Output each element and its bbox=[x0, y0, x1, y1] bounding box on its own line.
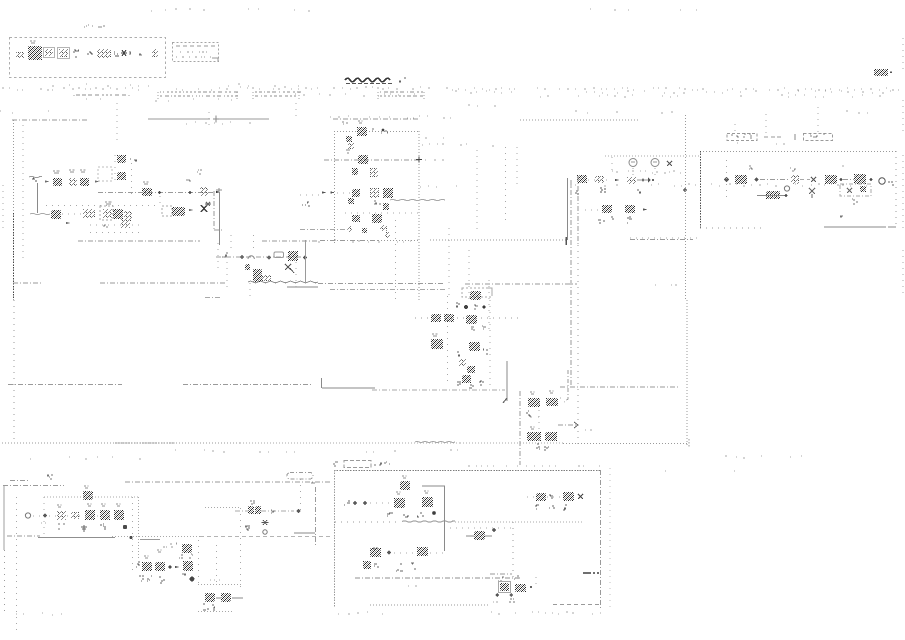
section rail y385 seg1 bbox=[8, 384, 122, 386]
deflection box label bbox=[374, 462, 390, 465]
resistor R303 bbox=[625, 205, 635, 213]
bus wire top bbox=[148, 118, 210, 120]
IF box left edge bbox=[334, 131, 336, 245]
rail y283 seg3 bbox=[318, 283, 445, 285]
section rail y387 seg4 bbox=[560, 386, 678, 388]
defl below dots bbox=[338, 612, 383, 614]
vert wire dots2 bbox=[430, 552, 445, 554]
Q602 marks bbox=[457, 352, 460, 356]
resistor R104 bbox=[51, 210, 61, 219]
IF box top left bbox=[334, 131, 356, 133]
sync sep R701 bbox=[528, 398, 540, 407]
pin name text block D bbox=[76, 94, 126, 96]
R101 designator bbox=[53, 171, 60, 173]
C203 designator bbox=[346, 150, 350, 153]
legend title text bbox=[84, 25, 105, 27]
sync sep R702 bbox=[546, 398, 558, 406]
vout stub bbox=[535, 577, 537, 589]
transistor Q401 bbox=[809, 188, 815, 198]
input diamond bbox=[683, 188, 688, 193]
chroma dashdot x520 bbox=[519, 391, 521, 465]
connector link bbox=[764, 136, 781, 138]
note text line 3 bbox=[176, 56, 211, 58]
bias dots bbox=[0, 0, 1, 1]
inner left border bbox=[22, 125, 24, 262]
dotted rail y232 bbox=[90, 232, 140, 234]
cascade vert x447 bbox=[447, 296, 449, 382]
arrow A7 bbox=[615, 179, 619, 181]
sync marks bbox=[526, 411, 531, 416]
left margin marks bbox=[2, 185, 4, 228]
note box bbox=[173, 43, 219, 62]
video rail y318 bbox=[415, 317, 520, 319]
arrow A2 bbox=[95, 180, 99, 182]
stub x726 bbox=[726, 160, 728, 200]
capacitor C205 bbox=[347, 226, 352, 232]
capacitor C102 bbox=[117, 155, 126, 163]
main block left border dense bbox=[13, 213, 15, 300]
Q801 designator bbox=[84, 486, 89, 488]
vosc label bbox=[373, 548, 378, 549]
h rail sparse bbox=[335, 521, 400, 523]
output jack bbox=[879, 178, 885, 184]
R301 marks bbox=[575, 191, 579, 194]
junction J6 bbox=[870, 178, 873, 181]
diamond dots bbox=[41, 522, 46, 524]
right area bottom dotted bbox=[563, 443, 688, 445]
R401 wire bbox=[757, 195, 786, 197]
IC buffer Q201 bbox=[383, 188, 393, 198]
audio inner box right bbox=[138, 497, 140, 560]
main block left border lower bbox=[13, 300, 15, 443]
main block left border bbox=[13, 120, 15, 213]
annotation row y92 right bbox=[455, 91, 891, 93]
output block right edge bbox=[895, 151, 897, 228]
Q803 designator bbox=[116, 504, 121, 506]
resistor R205 bbox=[352, 215, 360, 222]
right area vertical x687 bbox=[686, 300, 688, 446]
R102 designator bbox=[80, 170, 86, 172]
audio long rail y482 bbox=[125, 481, 332, 483]
T401 designator bbox=[749, 166, 753, 169]
agc cap C502 bbox=[245, 264, 250, 270]
note text line 1 bbox=[176, 45, 215, 47]
annotation row y88 left bbox=[2, 88, 228, 90]
separator specks y450 bbox=[175, 450, 295, 452]
cap C802 bbox=[183, 561, 193, 571]
capacitor C101 bbox=[69, 178, 77, 186]
cap marks row bbox=[457, 382, 461, 385]
C803 marks bbox=[179, 555, 183, 558]
link star bbox=[262, 520, 269, 525]
junction J8 bbox=[130, 536, 133, 539]
annotation row y88 right bbox=[452, 88, 899, 90]
section stub x321 bbox=[321, 378, 323, 388]
resistor R105 bbox=[113, 209, 123, 219]
rail y241 right bbox=[430, 239, 567, 241]
J2 designator bbox=[186, 180, 191, 181]
resistor R601 bbox=[431, 314, 441, 322]
audio rail stub bbox=[10, 480, 28, 482]
ic951 x bbox=[578, 494, 583, 499]
hdiamond 1 bbox=[353, 501, 358, 506]
agc signal wire y257 bbox=[216, 256, 302, 258]
C101 designator bbox=[69, 170, 75, 172]
agc bottom stub bbox=[205, 297, 222, 299]
vert marks bbox=[363, 561, 371, 569]
audio diamond bbox=[43, 513, 48, 518]
IF upper stub rail y229 bbox=[300, 229, 349, 231]
output vertical wire bbox=[219, 192, 221, 245]
link diamond bbox=[296, 509, 301, 514]
pin name text block A bbox=[160, 92, 238, 96]
out box bottom bbox=[198, 611, 232, 613]
out coil L801 bbox=[221, 593, 231, 602]
rail y283 seg1 bbox=[13, 282, 42, 284]
ground marks bbox=[840, 216, 843, 217]
wire solid y180 bbox=[637, 179, 649, 181]
junction J1 bbox=[158, 191, 161, 194]
ceramic filter CF201 bbox=[322, 191, 326, 193]
arrow A8 bbox=[648, 178, 651, 183]
arrow A1 bbox=[45, 180, 49, 182]
legend symbol S10 dot bbox=[129, 52, 131, 54]
ic950 cluster bbox=[536, 493, 546, 501]
W mark bbox=[58, 524, 65, 529]
link Q mark bbox=[263, 530, 267, 534]
input wavy lead bbox=[29, 176, 42, 178]
cap marks bbox=[100, 524, 106, 529]
capacitor C202 bbox=[348, 143, 354, 149]
crystal Y101 bbox=[103, 209, 112, 218]
CN1 stub bbox=[765, 114, 767, 133]
net label bbox=[197, 170, 202, 174]
det box edge x517 bbox=[516, 147, 518, 185]
bottom dotted y238 bbox=[630, 237, 700, 239]
agc diamond 2 bbox=[267, 255, 271, 259]
defl box left edge bbox=[334, 470, 336, 607]
h rail wavy bbox=[402, 521, 455, 523]
T901 designator bbox=[402, 476, 407, 478]
transistor Q602 bbox=[469, 342, 480, 351]
junction J2 bbox=[189, 191, 192, 194]
bias cap C402 bbox=[860, 186, 866, 192]
ic950 marks bbox=[549, 495, 553, 498]
deflection small box bbox=[344, 461, 371, 468]
wire dots y210 bbox=[585, 209, 600, 211]
legend symbol S3 capacitor bbox=[44, 48, 55, 58]
capacitor C204 bbox=[370, 188, 379, 198]
bus stub x209 bbox=[208, 112, 210, 130]
agc dots col x250 bbox=[249, 283, 251, 300]
resistor R204 bbox=[348, 198, 354, 204]
left block vertical wire bbox=[37, 183, 39, 213]
audio box left dotted bbox=[4, 550, 6, 616]
C304 marks bbox=[627, 217, 632, 223]
VR801 designator bbox=[57, 505, 62, 507]
IF inner vertical bbox=[395, 220, 397, 300]
resistor R602 bbox=[444, 314, 454, 322]
bus wire top right segment bbox=[333, 118, 419, 120]
hdrv Q902 bbox=[422, 497, 433, 507]
legend symbol S6 zener bbox=[87, 52, 93, 54]
agc dots col x227 bbox=[226, 262, 228, 292]
arrow A10 bbox=[175, 566, 179, 568]
IF transformer T202 bbox=[358, 155, 368, 164]
rail y241 left bbox=[78, 240, 200, 242]
audio inner left dotted bbox=[16, 497, 18, 630]
chroma wire x507 bbox=[506, 361, 508, 401]
resistor R202 bbox=[370, 168, 378, 177]
R103 designator bbox=[143, 182, 149, 184]
audio bus solid seg2 bbox=[140, 539, 160, 541]
separator dotted y443 left bbox=[2, 442, 240, 444]
vert osc Q903 bbox=[370, 548, 381, 557]
rail y283 wavy bbox=[248, 281, 318, 283]
resistor R103 bbox=[142, 188, 152, 196]
agc left edge dots bbox=[217, 243, 219, 268]
vert diamond bbox=[387, 550, 392, 555]
out wire 2 bbox=[232, 597, 243, 599]
C802 wavy bbox=[182, 574, 186, 575]
out box top bbox=[198, 584, 242, 586]
flyback box dots bbox=[450, 527, 512, 529]
section rail y385 seg2 bbox=[183, 384, 312, 386]
AGC text cluster bbox=[258, 275, 271, 281]
annotation row y112 bbox=[0, 111, 49, 113]
Q901 designator bbox=[396, 492, 401, 494]
junction J9 bbox=[169, 566, 172, 569]
rail y283 seg2 bbox=[100, 282, 225, 284]
power dash mark bbox=[583, 572, 599, 574]
coupling dashed box bbox=[98, 167, 112, 181]
wire y180 dashdot 2 bbox=[843, 179, 854, 181]
chroma arrow bbox=[503, 398, 507, 403]
vert drv Q904 bbox=[417, 547, 428, 556]
IC401 power amp bbox=[735, 175, 747, 184]
DL marks bottom bbox=[471, 327, 475, 330]
stage2 marks bbox=[139, 576, 144, 581]
vout diamonds bbox=[495, 593, 499, 597]
legend symbol S2 designator bbox=[30, 41, 36, 43]
separator specks y457 bbox=[30, 457, 141, 459]
vout C905 bbox=[499, 582, 511, 593]
transformer T401 bbox=[825, 175, 837, 184]
mute transistor Q801 bbox=[83, 491, 93, 500]
page top noise bbox=[151, 9, 310, 11]
legend symbol S8 arrow bbox=[114, 52, 119, 56]
defl box bottom dashes bbox=[553, 604, 600, 606]
transistor Q601 bbox=[431, 339, 443, 349]
bias marks bbox=[852, 199, 858, 204]
hdrive vertical bbox=[444, 486, 446, 551]
CN1 pins bbox=[731, 134, 752, 138]
link marks bbox=[271, 510, 275, 513]
boot cap C803 bbox=[182, 544, 192, 553]
sheet number label bbox=[874, 69, 888, 76]
Q301 marks bbox=[600, 188, 606, 192]
separator dotted y443 mid bbox=[240, 442, 460, 444]
tuner top dotted bbox=[605, 155, 700, 157]
input terminal X1 bbox=[32, 178, 37, 181]
star mark bbox=[205, 202, 211, 206]
resistor R203 bbox=[352, 189, 360, 197]
sync branch hook bbox=[563, 370, 568, 403]
separator dotted y443 dark seg bbox=[115, 442, 175, 444]
resistor R603 bbox=[459, 359, 466, 366]
audio node vertical bbox=[132, 497, 134, 575]
vhold rail y574 bbox=[490, 573, 512, 575]
spk box right bbox=[240, 508, 242, 590]
arrow A3 bbox=[216, 191, 220, 193]
ic95x wire dots bbox=[527, 496, 535, 498]
bus sub dots y123 bbox=[186, 122, 251, 124]
link cluster bbox=[302, 202, 310, 206]
annotation row y88 mid bbox=[240, 87, 448, 89]
sync marks2 bbox=[536, 444, 540, 449]
capacitor C208 bbox=[385, 232, 390, 238]
agc dots col x296 bbox=[295, 262, 297, 288]
main block top border bbox=[12, 119, 88, 121]
sync sep R703 bbox=[527, 432, 541, 441]
CN1 stub2 bbox=[734, 124, 736, 132]
bus solid y288 bbox=[287, 286, 318, 288]
CN2 pins bbox=[810, 134, 825, 137]
jack marks bbox=[888, 182, 894, 185]
T201 top designator bbox=[342, 122, 348, 124]
separator dotted y466 bbox=[468, 465, 600, 467]
annotation row y100 bbox=[86, 99, 232, 101]
R703 designator bbox=[530, 427, 535, 429]
feedback arrow bbox=[216, 188, 222, 192]
emitter resistor R401 bbox=[766, 191, 780, 199]
rail y284 seg4 bbox=[465, 283, 577, 285]
stage2 input mark bbox=[136, 562, 140, 567]
arrow A5 bbox=[66, 222, 70, 224]
legend symbol S9 star bbox=[121, 50, 127, 56]
IF dotted rail y213 bbox=[345, 212, 420, 214]
Q804 designator bbox=[144, 556, 149, 558]
right area vertical x685 bbox=[685, 115, 687, 300]
right col dots x610 bbox=[609, 468, 611, 608]
transformer T402 bbox=[854, 174, 866, 184]
wire dashes bbox=[800, 179, 810, 181]
vert wire dots bbox=[394, 552, 416, 554]
T201 designator bbox=[358, 121, 363, 123]
IF signal wire y160 bbox=[324, 159, 420, 161]
coil L302 ring bbox=[651, 159, 659, 167]
separator end tick bbox=[688, 439, 690, 447]
L302 x mark bbox=[667, 161, 672, 166]
rail y241 dots bbox=[318, 240, 418, 242]
hwire dots bbox=[370, 502, 393, 504]
sync sep R704 bbox=[545, 432, 557, 441]
output block left edge bbox=[700, 151, 702, 228]
bus junction bbox=[213, 116, 219, 123]
junction J5 bbox=[840, 178, 843, 181]
resistor R101 bbox=[53, 178, 62, 186]
hdrive transformer T901 bbox=[400, 481, 410, 490]
separator specks y457 right bbox=[725, 456, 802, 458]
IF wire dots right bbox=[425, 159, 444, 161]
agc filter C503 bbox=[253, 269, 262, 282]
rail y239 far right bbox=[630, 239, 693, 241]
capacitor C206 bbox=[362, 228, 367, 233]
link vertical dashdot x315 bbox=[315, 487, 317, 546]
CN2 stub bbox=[817, 107, 819, 133]
node wire x131 bbox=[131, 163, 133, 198]
defl box right edge bbox=[600, 470, 602, 608]
branch stub bbox=[159, 196, 161, 208]
IF box top right bbox=[369, 131, 419, 133]
agc diamond 1 bbox=[240, 255, 244, 259]
audio box left solid bbox=[3, 486, 5, 550]
deflection left tick bbox=[333, 462, 338, 466]
Q902 designator bbox=[424, 491, 429, 493]
flyback diamond bbox=[492, 528, 496, 532]
link tick bbox=[311, 482, 315, 484]
R701 designator bbox=[530, 392, 535, 394]
T201 side marks bbox=[372, 129, 388, 133]
IF box right edge bbox=[418, 131, 420, 300]
marks mid bbox=[374, 201, 381, 204]
vout labels bbox=[498, 577, 504, 581]
audio bus solid y537 bbox=[38, 537, 115, 539]
wire y180 dashdot bbox=[760, 179, 790, 181]
link dots x469 bbox=[468, 250, 470, 302]
block vertical dashdot bbox=[577, 176, 579, 245]
link connector box bbox=[287, 473, 313, 480]
junction J7 bbox=[785, 194, 788, 197]
legend symbol S12 shield bbox=[152, 49, 158, 57]
section rail y390 seg3 bbox=[372, 389, 505, 391]
audio inner box left bbox=[43, 497, 45, 537]
right margin dots bbox=[902, 38, 904, 72]
signal wire y192 bbox=[98, 192, 215, 194]
audio box top bbox=[3, 485, 64, 487]
filter FL401 bbox=[791, 175, 799, 184]
power amp Q805 bbox=[155, 562, 165, 571]
capacitor C103 bbox=[117, 172, 126, 180]
resistor R605 bbox=[462, 375, 471, 383]
sync branch dashdot bbox=[558, 424, 577, 426]
legend symbol S2 transformer bbox=[28, 46, 42, 60]
mid vertical dotted x578 bbox=[577, 245, 579, 445]
rail dotted y185 bbox=[570, 184, 867, 186]
det box outline bbox=[462, 288, 492, 297]
link solid y533 bbox=[294, 532, 315, 534]
junction J4 bbox=[642, 179, 645, 182]
DL marks top bbox=[474, 305, 478, 309]
pin name text block C bbox=[380, 92, 423, 96]
capacitor C801 bbox=[71, 512, 79, 519]
flyback R901 bbox=[474, 531, 485, 540]
legend symbol S11 ground bbox=[139, 54, 142, 55]
audio in dots bbox=[33, 515, 41, 517]
resistor R201 bbox=[352, 168, 358, 175]
link marks2 bbox=[245, 526, 248, 529]
Q805 designator bbox=[157, 550, 162, 552]
coil L301 ring bbox=[629, 159, 637, 167]
audio bus marks bbox=[163, 543, 177, 547]
C303 marks bbox=[611, 217, 614, 219]
out box label dots bbox=[210, 579, 220, 581]
C302 marks bbox=[637, 190, 641, 193]
transistor Q101 bbox=[172, 207, 185, 216]
chroma dotted x539 bbox=[538, 404, 540, 442]
link label bbox=[250, 501, 255, 504]
faint dashes y139 bbox=[425, 137, 444, 139]
